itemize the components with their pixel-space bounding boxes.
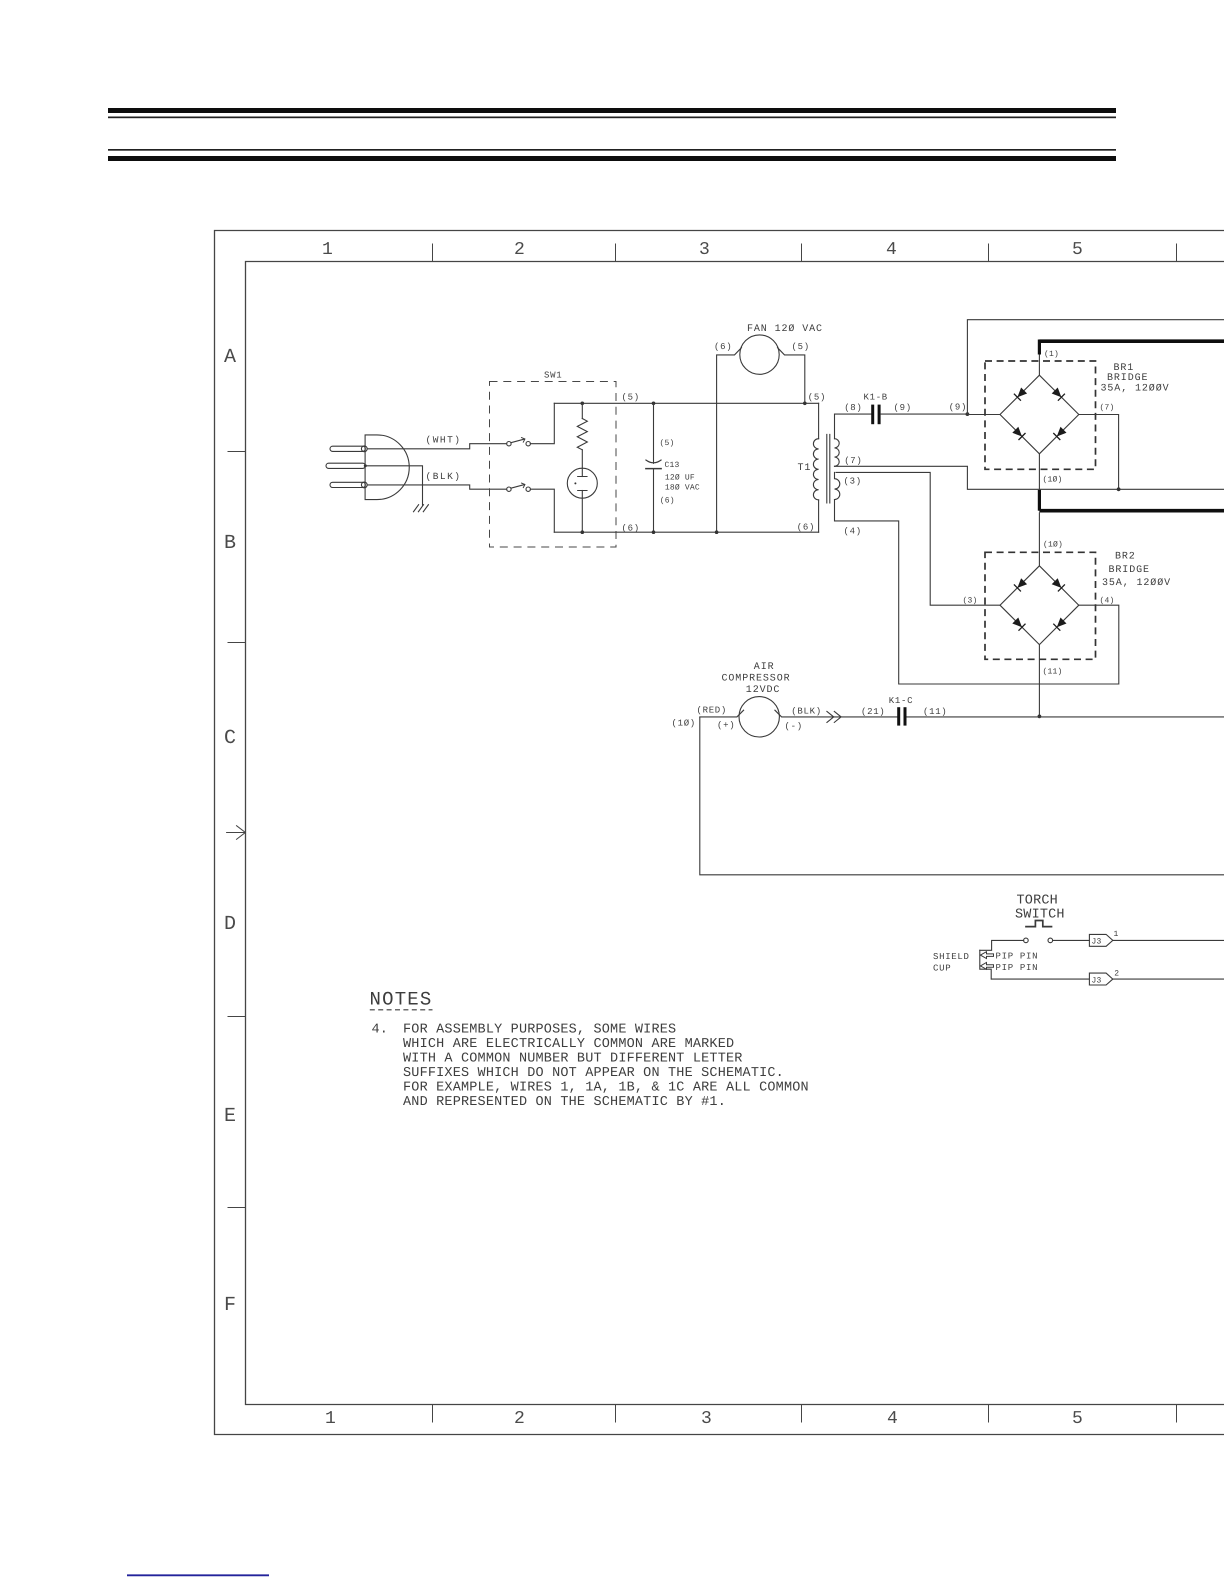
contacts — [1024, 938, 1029, 943]
svg-text:4.: 4. — [372, 1023, 389, 1038]
svg-text:E: E — [224, 1105, 236, 1128]
plug P1 body — [365, 435, 409, 500]
svg-text:COMPRESSOR: COMPRESSOR — [722, 673, 791, 684]
bridge BR1 enclosure — [985, 361, 1096, 469]
svg-text:(5): (5) — [660, 439, 675, 448]
svg-text:(4): (4) — [1100, 597, 1115, 606]
wire rail (6) — [554, 531, 818, 533]
sheet center arrow left — [227, 826, 246, 840]
wire fan right to rail 5 — [778, 348, 805, 404]
grid letters left — [224, 346, 236, 1317]
svg-text:1: 1 — [322, 240, 333, 260]
svg-text:SHIELD: SHIELD — [933, 952, 970, 962]
top double rule 1 — [108, 108, 1116, 118]
svg-text:(WHT): (WHT) — [426, 434, 462, 445]
svg-text:(11): (11) — [923, 707, 947, 717]
svg-text:4: 4 — [887, 1409, 898, 1429]
pushbutton actuator — [1026, 921, 1052, 927]
resistor R (pilot lamp ballast) — [581, 402, 585, 406]
svg-text:12VDC: 12VDC — [746, 685, 781, 696]
wire BR1 to BR2 — [1038, 512, 1040, 565]
wire BR1 bottom — [1038, 454, 1040, 490]
svg-text:(1Ø): (1Ø) — [672, 718, 696, 728]
svg-text:A: A — [224, 346, 236, 369]
wire ground from middle prong — [367, 466, 423, 505]
transformer T1 — [813, 403, 1118, 684]
svg-text:(8): (8) — [844, 403, 862, 413]
bridge BR2 diamond — [1000, 566, 1079, 645]
svg-text:AND REPRESENTED ON THE SCHEMAT: AND REPRESENTED ON THE SCHEMATIC BY #1. — [403, 1095, 726, 1110]
heavy bus (1) off-page — [1039, 339, 1224, 343]
svg-text:(7): (7) — [844, 456, 862, 466]
BR1 diode top-left — [1014, 388, 1027, 401]
column ticks top — [433, 244, 1177, 262]
svg-text:(-): (-) — [785, 721, 803, 731]
svg-text:J3: J3 — [1092, 976, 1102, 985]
BR1 diode top-right — [1052, 388, 1065, 401]
svg-text:(5): (5) — [622, 393, 640, 403]
plug prong middle (ground pin) — [326, 463, 365, 468]
svg-text:3: 3 — [701, 1409, 712, 1429]
wire (WHT) plug to switch — [367, 444, 506, 449]
capacitor C13 — [652, 402, 656, 406]
svg-text:1: 1 — [1114, 930, 1119, 939]
svg-text:SUFFIXES WHICH DO NOT APPEAR O: SUFFIXES WHICH DO NOT APPEAR ON THE SCHE… — [403, 1066, 784, 1081]
wire (10) to compressor — [700, 710, 744, 717]
wire J3-1 off-page — [1113, 939, 1224, 941]
svg-text:TORCH: TORCH — [1017, 894, 1058, 909]
CIRCUIT — [326, 435, 507, 512]
switch SW1 pole A — [507, 442, 511, 446]
svg-text:(21): (21) — [861, 707, 885, 717]
plug prong top — [330, 446, 365, 451]
svg-text:(4): (4) — [844, 526, 862, 536]
svg-text:SWITCH: SWITCH — [1015, 908, 1065, 923]
svg-text:FOR ASSEMBLY PURPOSES, SOME WI: FOR ASSEMBLY PURPOSES, SOME WIRES — [403, 1023, 676, 1038]
svg-text:(6): (6) — [714, 342, 732, 352]
wire compressor (BLK) — [775, 710, 897, 717]
svg-text:(5): (5) — [808, 393, 826, 403]
svg-text:J3: J3 — [1092, 938, 1102, 947]
T1 secondary lower winding — [836, 472, 1000, 605]
svg-text:(1): (1) — [1044, 350, 1059, 359]
grid numbers top — [322, 240, 1083, 260]
svg-text:AIR: AIR — [754, 662, 775, 673]
svg-text:(1Ø): (1Ø) — [1043, 541, 1063, 550]
wire (7) net off-page — [967, 466, 1224, 489]
wire BR1 (7) vertex drop — [1079, 415, 1119, 490]
svg-text:1: 1 — [325, 1409, 336, 1429]
relay contact K1-C — [897, 707, 906, 725]
air compressor B2 — [700, 697, 897, 737]
svg-text:T1: T1 — [798, 463, 812, 474]
T1 core — [827, 434, 830, 503]
footer link rule — [127, 1574, 269, 1576]
border frame outer — [215, 231, 1224, 1435]
BR2 diode top-right — [1052, 578, 1065, 591]
ground symbol — [414, 505, 429, 512]
wire switch B to rail 6 — [530, 489, 554, 532]
BR2 diode top-left — [1014, 578, 1027, 591]
shield cup bracket — [980, 950, 991, 979]
svg-text:FOR EXAMPLE, WIRES 1, 1A, 1B,: FOR EXAMPLE, WIRES 1, 1A, 1B, & 1C ARE A… — [403, 1081, 809, 1096]
chevron splice — [827, 711, 841, 722]
svg-text:(+): (+) — [717, 720, 735, 730]
svg-text:(6): (6) — [622, 524, 640, 534]
svg-text:FAN 12Ø VAC: FAN 12Ø VAC — [747, 324, 823, 335]
BR2 diode bottom-left — [1012, 618, 1025, 631]
svg-text:C: C — [224, 727, 236, 750]
svg-text:WITH A COMMON NUMBER BUT DIFFE: WITH A COMMON NUMBER BUT DIFFERENT LETTE… — [403, 1052, 743, 1067]
svg-text:35A, 12ØØV: 35A, 12ØØV — [1101, 384, 1170, 395]
grid numbers bottom — [325, 1409, 1083, 1429]
BR2 diode bottom-right — [1053, 618, 1066, 631]
node (9) junction — [966, 412, 970, 416]
svg-text:(BLK): (BLK) — [426, 471, 462, 482]
svg-text:SW1: SW1 — [544, 371, 562, 381]
svg-text:B: B — [224, 532, 236, 555]
heavy bus (10) off-page — [1038, 490, 1041, 511]
BR1 diode bottom-left — [1012, 427, 1025, 440]
svg-text:NOTES: NOTES — [370, 989, 433, 1011]
pip pin arrow 1 — [980, 952, 993, 959]
wire rail (5) — [554, 402, 818, 404]
svg-text:5: 5 — [1072, 1409, 1083, 1429]
svg-text:(6): (6) — [797, 523, 815, 533]
svg-text:4: 4 — [886, 240, 897, 260]
svg-text:(5): (5) — [792, 342, 810, 352]
wire shield cup to J3-2 — [991, 978, 1089, 980]
svg-text:WHICH ARE ELECTRICALLY COMMON: WHICH ARE ELECTRICALLY COMMON ARE MARKED — [403, 1037, 734, 1052]
svg-text:(7): (7) — [1100, 404, 1115, 413]
svg-text:C13: C13 — [665, 461, 680, 470]
svg-text:35A, 12ØØV: 35A, 12ØØV — [1102, 578, 1171, 589]
bridge BR2 enclosure — [985, 552, 1096, 659]
T1 secondary upper winding — [835, 414, 872, 439]
torch switch — [980, 921, 1090, 980]
SW1 dashed enclosure — [490, 382, 617, 548]
pip pin arrow 2 — [980, 963, 993, 970]
wire (9) loop off-page — [967, 320, 1224, 414]
node (11) junction — [1038, 715, 1042, 719]
wire switch A to rail 5 — [530, 403, 554, 443]
connector J3 pin 2 — [991, 970, 1224, 986]
svg-text:(11): (11) — [1043, 668, 1063, 677]
svg-text:(BLK): (BLK) — [791, 706, 822, 716]
wire BR1 top — [1038, 355, 1040, 376]
svg-text:K1-C: K1-C — [889, 696, 913, 706]
svg-text:2: 2 — [514, 240, 525, 260]
svg-text:(9): (9) — [894, 403, 912, 413]
plug prong bottom — [330, 482, 365, 487]
svg-text:3: 3 — [699, 240, 710, 260]
bridge BR1 diamond — [1000, 375, 1079, 454]
svg-text:(1Ø): (1Ø) — [1043, 476, 1063, 485]
row ticks left — [228, 452, 246, 1208]
wire (10) loop off-page — [700, 717, 1224, 875]
wire contact to J3-1 — [1053, 939, 1090, 941]
svg-text:2: 2 — [1114, 970, 1119, 979]
wire fan left to rail 6 — [717, 348, 742, 533]
top double rule 2 — [108, 149, 1116, 161]
T1 primary winding — [818, 403, 820, 438]
svg-text:(3): (3) — [844, 477, 862, 487]
svg-text:BRIDGE: BRIDGE — [1109, 565, 1150, 576]
fan B1 — [715, 335, 807, 534]
svg-text:(RED): (RED) — [697, 705, 728, 715]
wire to shield cup — [980, 940, 1024, 950]
node (7) junction — [1117, 487, 1121, 491]
svg-text:2: 2 — [514, 1409, 525, 1429]
svg-text:(6): (6) — [660, 497, 675, 506]
svg-text:PIP PIN: PIP PIN — [996, 963, 1039, 973]
svg-text:F: F — [224, 1294, 236, 1317]
svg-text:D: D — [224, 913, 236, 936]
BR1 diode bottom-right — [1053, 427, 1066, 440]
svg-text:BRIDGE: BRIDGE — [1107, 373, 1148, 384]
svg-text:(3): (3) — [963, 597, 978, 606]
border frame inner — [246, 262, 1224, 1405]
relay contact K1-B — [871, 405, 967, 425]
wire (BLK) plug to switch — [367, 485, 506, 489]
connector J3 pin 1 — [1089, 930, 1224, 947]
switch SW1 pole B — [507, 487, 511, 491]
svg-text:CUP: CUP — [933, 963, 951, 973]
svg-text:18Ø VAC: 18Ø VAC — [665, 484, 700, 493]
wire (11) net off-page — [907, 716, 1224, 718]
svg-text:BR2: BR2 — [1115, 552, 1136, 563]
svg-text:PIP PIN: PIP PIN — [996, 952, 1039, 962]
wire J3-2 off-page — [1113, 978, 1224, 980]
svg-text:K1-B: K1-B — [864, 392, 888, 402]
svg-text:5: 5 — [1072, 240, 1083, 260]
neon lamp DS1 — [567, 468, 597, 498]
column ticks bottom — [433, 1405, 1177, 1423]
svg-text:(9): (9) — [949, 403, 967, 413]
wire (9) to BR1 — [967, 414, 1000, 416]
wire BR2 bottom to node — [1038, 645, 1040, 717]
svg-text:12Ø UF: 12Ø UF — [665, 474, 695, 483]
